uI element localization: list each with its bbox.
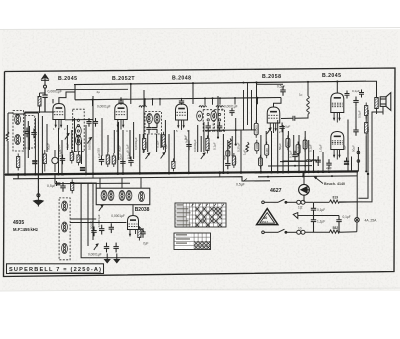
bus junctions smoothing bbox=[312, 170, 330, 173]
wire resistor R2 to heater line bbox=[17, 175, 19, 180]
coil L3 smoothing choke bbox=[311, 160, 319, 161]
tube V1 (RF amp B.2045) bbox=[53, 104, 65, 130]
capacitor C20 0,5uF bbox=[60, 182, 65, 192]
wire box to detail tube bbox=[132, 205, 134, 216]
wire bus to left frame bbox=[4, 174, 5, 176]
capacitor C22 bbox=[91, 227, 96, 237]
tube V6 (rectifier) bbox=[331, 132, 344, 160]
wire bbox=[29, 126, 31, 150]
wire bbox=[101, 118, 103, 156]
wire phono line right bbox=[314, 215, 340, 217]
capacitor C9 bbox=[120, 158, 125, 168]
coil choke 3 bbox=[216, 106, 224, 107]
wire mains bottom bbox=[264, 231, 278, 233]
title box SUPERBELL 7 = (2250-A) bbox=[7, 264, 104, 274]
speaker terminal circle 1 bbox=[357, 151, 360, 154]
capacitor C25 bbox=[104, 243, 109, 253]
wire to primary coil bottom bbox=[286, 231, 297, 233]
wire detail drop x88 bbox=[87, 184, 89, 193]
wire grid return bbox=[74, 118, 76, 152]
wire bbox=[207, 130, 209, 150]
wire detail link bbox=[70, 218, 96, 220]
wire screen riser bbox=[152, 99, 154, 106]
bus junctions stage E bbox=[260, 170, 311, 173]
capacitor C11 bbox=[186, 141, 191, 151]
resistor R15 bbox=[254, 120, 258, 138]
electrolytic can capacitor C38 bbox=[52, 150, 58, 172]
wire bbox=[271, 131, 273, 172]
junction dot grid V3 bbox=[217, 136, 219, 138]
bus junctions stage B bbox=[57, 172, 119, 175]
junction dot stage A bus bbox=[7, 174, 9, 176]
wire screen riser bbox=[144, 99, 146, 106]
wire bbox=[164, 120, 166, 152]
resistor R1 bbox=[6, 131, 9, 141]
wire IF primary bbox=[143, 90, 145, 138]
wire bbox=[118, 122, 120, 160]
junction dot rail A V5 bbox=[336, 80, 338, 82]
resistor R13 bbox=[232, 153, 235, 168]
grid capacitor above V2 bbox=[118, 97, 123, 105]
wire bbox=[265, 131, 267, 144]
junction dot rail B bbox=[144, 98, 146, 100]
wire V1 grid cap link bbox=[52, 99, 54, 103]
resistor R9 bbox=[172, 158, 175, 171]
wire bbox=[24, 112, 39, 114]
wire AF row 1 bbox=[268, 165, 312, 167]
output transformer bbox=[375, 85, 378, 114]
IF transformer can T2b dashed box bbox=[215, 110, 225, 132]
capacitor near V5 top right bbox=[359, 90, 364, 98]
wire bbox=[71, 130, 73, 149]
trimmer capacitor C1 bbox=[24, 128, 29, 138]
mains terminal circle top bbox=[262, 201, 265, 204]
wire bbox=[34, 118, 36, 174]
wire 582 to fuse column bbox=[340, 231, 357, 234]
junction dot rail A V3 bbox=[192, 82, 194, 84]
junction dot rail B bbox=[234, 97, 236, 99]
transformer primary coil top bbox=[297, 200, 305, 204]
junction dot rail B bbox=[152, 98, 154, 100]
wire bbox=[147, 134, 149, 152]
resistor R20 bbox=[296, 142, 300, 157]
wire bbox=[85, 125, 87, 174]
switch contact S3 bbox=[201, 153, 205, 159]
tube V3 (IF amp B.2048) bbox=[176, 104, 188, 130]
trimmer C12 bbox=[206, 122, 211, 132]
wire screen bbox=[92, 96, 94, 174]
capacitor C26 bbox=[113, 243, 118, 253]
wire bbox=[308, 140, 310, 172]
wire bbox=[322, 152, 324, 172]
coil choke 1 bbox=[139, 106, 147, 107]
wire bbox=[56, 181, 58, 186]
coil L2a bbox=[76, 119, 82, 136]
bus junctions stage D bbox=[187, 171, 242, 174]
mains filter cap C28 0,1uF bbox=[311, 202, 316, 215]
output choke coil vertical bbox=[307, 82, 310, 119]
coil unit La bbox=[101, 191, 107, 201]
band switch contact S1a bbox=[65, 134, 69, 140]
wire coil box feed 1 bbox=[99, 178, 101, 188]
bus junctions stage A bbox=[17, 173, 37, 176]
junction dot rail A HT bbox=[255, 81, 257, 83]
resistor 582 horizontal bbox=[330, 230, 340, 233]
resistor R19 bbox=[286, 135, 290, 150]
wire output grid link bbox=[355, 106, 357, 130]
screen supply rail bbox=[75, 98, 281, 100]
junction dots AF rows bbox=[282, 161, 306, 167]
resistor R7 bbox=[143, 135, 146, 152]
switch contact S2a bbox=[146, 153, 150, 159]
heater wire right section bbox=[258, 175, 357, 178]
ground symbol detail 1 bbox=[105, 254, 110, 263]
junction dot rail A V2 bbox=[130, 83, 132, 85]
junction dot rail B bbox=[219, 97, 221, 99]
IF detail coil Lb bbox=[62, 222, 68, 232]
wire bbox=[77, 135, 79, 152]
capacitor C36 bbox=[86, 118, 91, 127]
capacitor near V5 top left bbox=[345, 91, 350, 99]
coil unit solid box bbox=[96, 188, 150, 205]
junction dots output bus bbox=[356, 170, 358, 172]
trimmer capacitor C2 bbox=[31, 129, 36, 139]
capacitor C23 bbox=[99, 225, 104, 235]
callout arrow bbox=[314, 177, 323, 184]
antenna coil L1a bbox=[15, 115, 21, 125]
junction dots heater wire bbox=[267, 175, 333, 178]
table 2 X cell marks bbox=[195, 242, 211, 249]
capacitor C17 bbox=[316, 156, 321, 166]
wire bbox=[200, 136, 202, 152]
wire bbox=[129, 130, 131, 159]
resistor R17 bbox=[259, 155, 263, 169]
junction dot rail A choke bbox=[307, 81, 309, 83]
wire bbox=[24, 118, 26, 174]
capacitor C24 bbox=[109, 223, 114, 233]
junction dot rail B bbox=[212, 97, 214, 99]
wire bbox=[282, 125, 284, 172]
wire bbox=[287, 131, 289, 172]
IF coil T2a bbox=[197, 111, 210, 121]
capacitor C15 bbox=[279, 123, 284, 133]
switch contact S4 bbox=[267, 128, 271, 134]
wire cathode V2 bbox=[122, 130, 124, 174]
junction dot AVC bbox=[72, 119, 74, 121]
mains switch bottom bbox=[278, 229, 287, 233]
fuse circle bbox=[355, 218, 360, 223]
wire coil to caps top bbox=[305, 201, 313, 203]
wire V4 cluster top bbox=[257, 83, 284, 85]
table 2 row label text lines bbox=[176, 234, 190, 243]
wire heater drop 2 bbox=[219, 173, 221, 177]
wire bbox=[293, 135, 295, 155]
wire anode riser V3 bbox=[192, 83, 194, 104]
wire eye tube top row bbox=[205, 129, 256, 132]
capacitor C18 bbox=[326, 159, 331, 169]
switch contact S5 bbox=[99, 205, 103, 211]
bus junctions stage C bbox=[122, 172, 171, 175]
phono pickup arrow bbox=[293, 213, 313, 219]
wire cathode V1 bbox=[58, 128, 60, 174]
wire lamp down bbox=[303, 195, 305, 202]
junction dot antenna bus bbox=[41, 173, 43, 175]
capacitor C31 bbox=[353, 97, 358, 107]
wire detector cluster 2 bbox=[247, 83, 249, 125]
coil unit Lc bbox=[119, 191, 125, 201]
table 1 row label text lines bbox=[177, 204, 191, 225]
junction dot below bus bbox=[62, 173, 64, 175]
tube V5 (output B.2045) bbox=[331, 93, 344, 123]
resistor R6 bbox=[112, 153, 115, 167]
mains filter cap C29 1,1uF bbox=[311, 216, 316, 233]
mains terminal circle bottom bbox=[262, 231, 265, 234]
wire bbox=[160, 134, 162, 148]
wire bbox=[13, 113, 25, 115]
wire antenna cap down to V1 grid bbox=[45, 101, 53, 112]
electrolytic capacitor C5 bbox=[80, 168, 85, 170]
resistor R21 bbox=[303, 137, 307, 152]
wire output return bbox=[358, 110, 368, 198]
wire to ground symbol bbox=[37, 113, 39, 196]
title underline bbox=[9, 271, 101, 273]
wire rail A to output transformer bbox=[366, 81, 377, 97]
wire choke link bbox=[283, 160, 306, 162]
wire bbox=[298, 135, 300, 172]
wire AF row 2 bbox=[280, 160, 312, 162]
IF transformer can T1 dashed box bbox=[145, 112, 162, 135]
antenna symbol bbox=[41, 74, 49, 88]
wire bbox=[231, 136, 233, 156]
wire stage A left drop bbox=[7, 113, 9, 135]
wire bbox=[156, 134, 158, 152]
wire screen riser bbox=[219, 98, 221, 105]
coupling capacitor to output grid bbox=[281, 116, 308, 121]
table 1 grid lines bbox=[175, 203, 226, 227]
junction dot V5 cathode bbox=[347, 170, 349, 172]
wire IF2 primary bbox=[217, 96, 219, 138]
table 2 grid lines bbox=[174, 233, 211, 250]
coil unit Le bbox=[139, 192, 145, 202]
resistor R3 bbox=[70, 150, 73, 164]
wire bbox=[142, 134, 144, 153]
IF transformer can T2a dashed box bbox=[203, 110, 213, 132]
wire coil to caps bottom bbox=[305, 231, 330, 233]
wire screen riser bbox=[204, 98, 206, 105]
wire bbox=[240, 130, 242, 172]
wire HT feed from rectifier to rail A bbox=[256, 82, 258, 123]
wire right feed horizontal bbox=[340, 112, 383, 202]
wire detector cluster 1 bbox=[243, 90, 245, 130]
junction dot rail B bbox=[204, 97, 206, 99]
wire to primary coil top bbox=[286, 201, 297, 203]
wire V5 cathode down bbox=[347, 120, 349, 172]
coil L2b bbox=[76, 135, 82, 145]
capacitor C16 bbox=[292, 151, 297, 161]
coil unit Lb bbox=[108, 191, 114, 201]
speaker terminal wire bbox=[357, 147, 359, 172]
wire bbox=[256, 84, 258, 123]
wire screen riser bbox=[159, 99, 161, 106]
resistor R5 bbox=[106, 152, 109, 167]
wire bbox=[313, 150, 315, 172]
wire bbox=[133, 122, 135, 159]
wire bbox=[113, 130, 115, 153]
wire cap C33 stub bbox=[346, 158, 348, 162]
wire heater drop 1 bbox=[92, 174, 94, 178]
electrolytic capacitor C3 bbox=[32, 161, 37, 163]
antenna coil dashed box 2 bbox=[25, 116, 35, 149]
capacitor C35 bbox=[280, 86, 285, 96]
wire lamp column continues bbox=[302, 173, 304, 176]
wire antenna to coil top bbox=[25, 112, 45, 118]
wire speaker secondary down bbox=[382, 107, 384, 115]
wire V6 down to bus bbox=[351, 157, 353, 172]
antenna series resistor bbox=[38, 93, 45, 113]
resistor R22 bbox=[71, 179, 74, 193]
wire bbox=[304, 131, 306, 172]
wire bbox=[66, 125, 68, 150]
capacitor C10 bbox=[128, 157, 133, 167]
wire rail A left end drop bbox=[74, 85, 76, 100]
cap C30 0,1uF right bbox=[336, 216, 341, 233]
wire screen riser bbox=[257, 98, 259, 105]
switch contact S2b bbox=[161, 153, 165, 159]
resistor R16 bbox=[255, 140, 259, 154]
wire resistor column bbox=[365, 116, 367, 120]
antenna coil assembly dashed box L1 bbox=[13, 111, 24, 152]
wire bbox=[139, 134, 141, 173]
resistor R8 bbox=[162, 132, 165, 150]
wire bbox=[87, 192, 89, 246]
chassis ground bus (thick) bbox=[5, 171, 358, 174]
IF unit dashed screen box bbox=[59, 198, 70, 260]
resistor R23 bbox=[138, 227, 141, 241]
IF detail coil Lc bbox=[62, 244, 68, 254]
band switch contact S1b bbox=[87, 138, 91, 144]
table 1 X cell marks bbox=[196, 207, 222, 226]
wire detail feed horizontal bbox=[55, 182, 130, 184]
grid capacitor above V3 bbox=[179, 98, 184, 105]
wire 819 to vertical bbox=[314, 201, 330, 203]
capacitor C21 bbox=[56, 183, 60, 185]
mains switch top bbox=[278, 199, 287, 203]
table 1 header hatches bbox=[192, 204, 224, 206]
junction dot rail B bbox=[92, 99, 94, 101]
resistor 819 horizontal bbox=[330, 200, 340, 203]
junction dot rail B bbox=[159, 98, 161, 100]
capacitor C37 bbox=[93, 118, 98, 127]
IF detail coil La bbox=[62, 201, 68, 211]
detail tube (triode of B2038) bbox=[128, 216, 145, 238]
wire coil box feed 3 bbox=[140, 178, 142, 189]
wire stage A left lower bbox=[7, 141, 9, 175]
heater wire below bus bbox=[13, 177, 270, 181]
resistor R24 bbox=[365, 103, 368, 119]
callout arrow 05uF bbox=[243, 179, 247, 182]
wire resistor column down bbox=[365, 136, 367, 171]
wire bbox=[222, 134, 224, 173]
HT supply rail bbox=[74, 81, 366, 84]
voltage table 1 frame bbox=[175, 203, 226, 227]
wire bbox=[260, 135, 262, 172]
wire detail link2 bbox=[70, 222, 126, 224]
resistor R12 bbox=[226, 148, 230, 159]
trimmer C8 bbox=[152, 124, 157, 134]
coupling capacitor C34 bbox=[229, 108, 234, 116]
loudspeaker bbox=[380, 93, 391, 111]
wire bbox=[61, 140, 63, 174]
junction dots eye row bbox=[222, 129, 236, 131]
border frame of schematic sheet bbox=[4, 68, 396, 277]
wire AVC line bbox=[56, 88, 128, 90]
wire fuse down bbox=[356, 222, 358, 232]
junction dot output return bbox=[367, 173, 369, 175]
wire detail feed drop bbox=[54, 174, 56, 183]
resistor R10 bbox=[206, 135, 209, 153]
ground symbol detail 2 bbox=[114, 254, 119, 263]
tube V2 (mixer B.2052T) bbox=[115, 104, 128, 130]
wire lamp to bus bbox=[303, 173, 305, 184]
wire tuning gang right bbox=[46, 124, 48, 152]
coil choke 2 bbox=[199, 106, 207, 107]
junction dot rail A d1 bbox=[243, 82, 245, 84]
IF coil T1b bbox=[154, 114, 160, 124]
wire anode riser V2 bbox=[130, 84, 132, 104]
wire AVC horizontal link bbox=[65, 119, 93, 121]
wire bbox=[188, 130, 190, 173]
IF coil T2b bbox=[211, 111, 221, 121]
resistor R14 bbox=[246, 142, 249, 152]
speaker terminal circle 2 bbox=[357, 160, 360, 163]
warning triangle symbol bbox=[257, 209, 278, 225]
capacitor C14 bbox=[225, 160, 230, 170]
wire anode riser V5 bbox=[336, 82, 338, 94]
wire coil box feed 2 bbox=[121, 178, 123, 189]
wire detector cluster 3 bbox=[251, 90, 253, 130]
wire bbox=[107, 135, 109, 152]
antenna coil L1b bbox=[15, 135, 21, 145]
wire tuning gang left bbox=[41, 116, 43, 174]
dial lamp symbol bbox=[299, 184, 310, 195]
capacitor C27 bbox=[140, 228, 145, 238]
wire bbox=[277, 120, 279, 172]
filter choke coil bbox=[306, 160, 316, 161]
wire antenna to V1 grid bbox=[45, 111, 54, 113]
wire bbox=[81, 140, 83, 164]
antenna coupling capacitor 0,0001uF bbox=[42, 88, 47, 112]
capacitor C6 bbox=[99, 156, 104, 166]
resistor R2 bbox=[17, 154, 20, 171]
coil unit Ld bbox=[126, 191, 132, 201]
resistor R18 bbox=[265, 142, 269, 159]
electrolytic cap C33 bbox=[344, 162, 349, 165]
wire loop around detail block bbox=[81, 183, 150, 258]
transformer primary coil bottom bbox=[297, 230, 305, 234]
wire rail B end drop bbox=[274, 98, 282, 108]
voltage table 2 frame bbox=[174, 233, 211, 250]
vertical feed wire right bbox=[356, 172, 358, 218]
resistor R25 bbox=[365, 120, 368, 137]
junction dot rail B bbox=[257, 97, 259, 99]
wire screen riser bbox=[234, 98, 236, 105]
tube V4 (detector B.2058) bbox=[267, 107, 280, 133]
wire from bus down to chassis ground bbox=[37, 174, 39, 198]
wire bbox=[173, 130, 175, 161]
wire screen riser bbox=[212, 98, 214, 105]
wire mains top bbox=[264, 201, 278, 203]
switch contact S6 bbox=[94, 244, 98, 250]
